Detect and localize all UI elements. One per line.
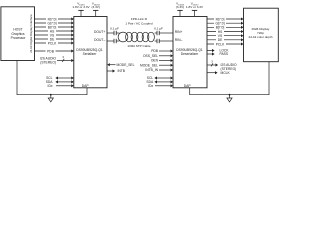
svg-text:3: 3 xyxy=(62,55,64,59)
svg-text:INTB: INTB xyxy=(118,69,126,73)
svg-text:Serializer: Serializer xyxy=(83,52,98,56)
svg-text:0.1 µF: 0.1 µF xyxy=(154,27,163,31)
svg-text:24-bit color depth: 24-bit color depth xyxy=(249,35,273,39)
svg-text:PASS: PASS xyxy=(220,52,229,56)
svg-text:INTB_IN: INTB_IN xyxy=(145,68,158,72)
svg-text:IDx: IDx xyxy=(148,84,153,88)
svg-text:MCLK: MCLK xyxy=(221,71,231,75)
svg-text:IDx: IDx xyxy=(48,84,53,88)
svg-text:(STEREO): (STEREO) xyxy=(40,60,56,64)
svg-text:RIN+: RIN+ xyxy=(175,30,183,34)
svg-text:Processor: Processor xyxy=(11,36,27,40)
svg-text:PCLK: PCLK xyxy=(216,42,225,46)
svg-text:0.1 µF: 0.1 µF xyxy=(110,27,119,31)
svg-text:OEN: OEN xyxy=(151,59,159,63)
svg-text:(3.3V): (3.3V) xyxy=(176,5,184,9)
svg-text:3: 3 xyxy=(211,60,213,64)
svg-text:MODE_SEL: MODE_SEL xyxy=(117,63,135,67)
svg-text:RIN–: RIN– xyxy=(175,38,183,42)
svg-text:24-bit Digital Display Interfa: 24-bit Digital Display Interface xyxy=(29,14,33,53)
svg-text:100Ω STP Cable: 100Ω STP Cable xyxy=(127,44,151,48)
svg-text:(3.3V): (3.3V) xyxy=(91,5,99,9)
svg-text:1.8V or 3.3V: 1.8V or 3.3V xyxy=(72,5,90,9)
svg-text:DAP: DAP xyxy=(184,84,192,88)
svg-text:OSS_SEL: OSS_SEL xyxy=(143,54,158,58)
svg-text:PDB: PDB xyxy=(151,49,159,53)
svg-text:PDB: PDB xyxy=(47,49,55,53)
svg-text:MODE_SEL: MODE_SEL xyxy=(140,63,158,67)
svg-text:1.8V or 3.3V: 1.8V or 3.3V xyxy=(186,5,204,9)
svg-text:DOUT–: DOUT– xyxy=(94,38,105,42)
svg-text:1 Pair / AC Coupled: 1 Pair / AC Coupled xyxy=(125,21,152,25)
svg-text:Deserializer: Deserializer xyxy=(181,52,199,56)
svg-text:DOUT+: DOUT+ xyxy=(94,30,105,34)
svg-text:DAP: DAP xyxy=(82,84,90,88)
svg-text:PCLK: PCLK xyxy=(48,41,57,45)
